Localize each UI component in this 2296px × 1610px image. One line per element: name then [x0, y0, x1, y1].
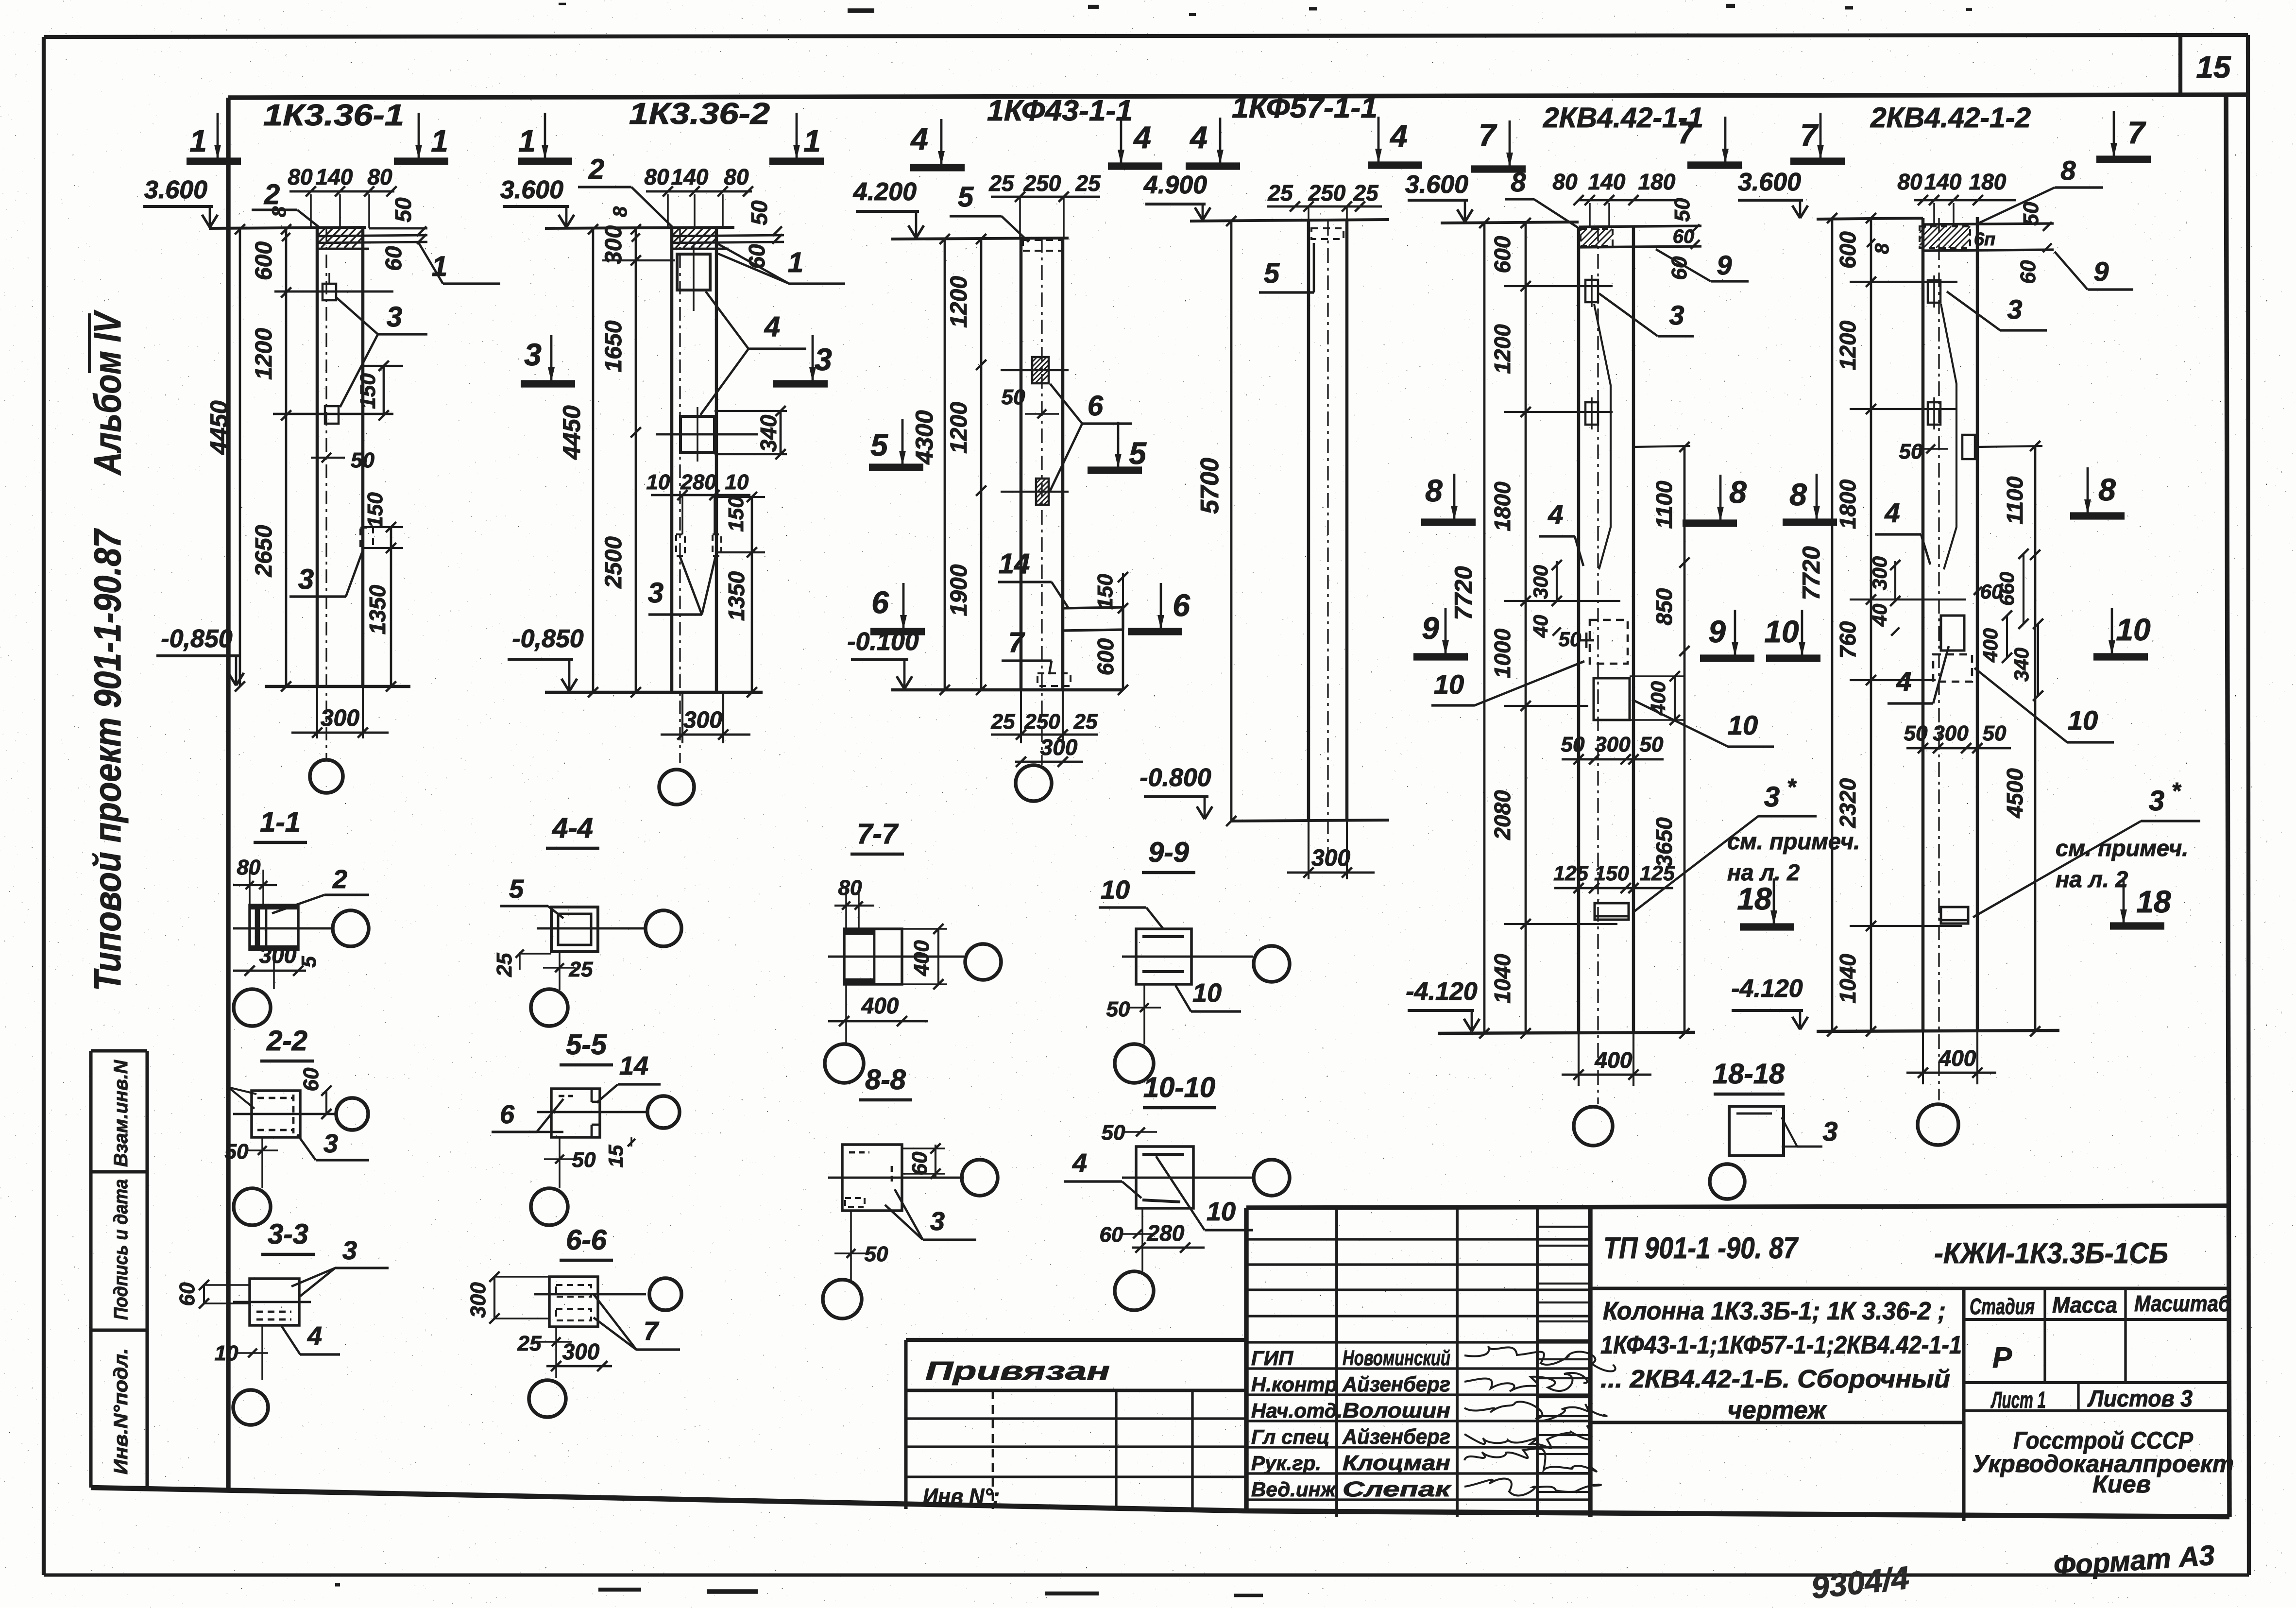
- svg-text:400: 400: [1647, 681, 1669, 716]
- svg-text:400: 400: [1979, 628, 2002, 663]
- svg-text:Колонна 1К3.3Б-1; 1К 3.36-2 ;: Колонна 1К3.3Б-1; 1К 3.36-2 ;: [1603, 1297, 1946, 1325]
- svg-text:14: 14: [619, 1051, 648, 1080]
- svg-text:Масштаб: Масштаб: [2134, 1291, 2231, 1316]
- svg-text:3: 3: [2007, 294, 2022, 325]
- svg-text:Новоминский: Новоминский: [1343, 1346, 1450, 1370]
- svg-text:150: 150: [1093, 574, 1117, 610]
- svg-text:60: 60: [299, 1067, 323, 1091]
- svg-text:1200: 1200: [1835, 320, 1860, 370]
- svg-text:150: 150: [356, 373, 380, 409]
- svg-text:Рук.гр.: Рук.гр.: [1251, 1452, 1321, 1474]
- svg-text:80: 80: [1897, 169, 1922, 194]
- svg-text:10: 10: [646, 470, 670, 494]
- svg-text:50: 50: [1899, 440, 1923, 463]
- svg-text:140: 140: [316, 164, 353, 189]
- svg-text:50: 50: [1670, 198, 1694, 222]
- svg-text:см. примеч.: см. примеч.: [1727, 828, 1860, 854]
- svg-text:3650: 3650: [1651, 817, 1677, 867]
- svg-text:3: 3: [2149, 785, 2164, 817]
- svg-text:10: 10: [1192, 978, 1222, 1008]
- svg-text:2: 2: [588, 154, 604, 185]
- svg-text:250: 250: [1024, 710, 1060, 734]
- svg-text:7-7: 7-7: [857, 818, 899, 850]
- svg-text:50: 50: [351, 448, 374, 472]
- svg-text:850: 850: [1651, 588, 1677, 625]
- svg-text:300: 300: [321, 705, 359, 731]
- svg-text:1040: 1040: [1835, 954, 1860, 1004]
- svg-text:14: 14: [999, 548, 1030, 580]
- svg-text:7: 7: [1008, 627, 1025, 658]
- svg-text:9: 9: [1717, 250, 1732, 280]
- svg-text:*: *: [2172, 778, 2182, 804]
- svg-text:180: 180: [1638, 169, 1676, 194]
- svg-text:3: 3: [1822, 1116, 1837, 1147]
- svg-text:300: 300: [466, 1282, 490, 1318]
- svg-text:2650: 2650: [251, 525, 277, 577]
- svg-text:80: 80: [724, 164, 749, 189]
- svg-text:ГИП: ГИП: [1251, 1347, 1293, 1370]
- svg-text:3: 3: [1669, 300, 1684, 330]
- svg-text:125: 125: [1640, 862, 1675, 885]
- svg-text:8: 8: [1425, 473, 1443, 508]
- svg-text:3.600: 3.600: [1738, 168, 1801, 196]
- svg-text:6: 6: [871, 585, 889, 620]
- svg-text:8: 8: [1511, 167, 1526, 197]
- svg-text:Альбом IV: Альбом IV: [86, 310, 129, 476]
- svg-text:60: 60: [908, 1151, 932, 1175]
- svg-text:4: 4: [1548, 499, 1563, 530]
- svg-text:4500: 4500: [2002, 768, 2027, 819]
- svg-text:1: 1: [431, 123, 448, 158]
- svg-text:25: 25: [493, 953, 516, 977]
- svg-text:2: 2: [264, 179, 280, 210]
- svg-text:2КВ4.42-1-2: 2КВ4.42-1-2: [1870, 102, 2031, 134]
- svg-text:Слепак: Слепак: [1343, 1477, 1452, 1501]
- svg-text:1К3.36-1: 1К3.36-1: [263, 99, 404, 132]
- svg-text:5: 5: [1129, 436, 1147, 471]
- svg-text:50: 50: [1559, 628, 1582, 651]
- svg-text:600: 600: [1835, 231, 1860, 269]
- svg-text:Инв.N°подл.: Инв.N°подл.: [110, 1348, 132, 1474]
- svg-text:7720: 7720: [1450, 566, 1477, 620]
- svg-text:8-8: 8-8: [865, 1064, 906, 1096]
- svg-text:60: 60: [1100, 1223, 1123, 1247]
- svg-text:600: 600: [1093, 638, 1118, 675]
- svg-text:80: 80: [644, 164, 669, 189]
- svg-text:50: 50: [391, 197, 416, 223]
- svg-text:25: 25: [1073, 710, 1098, 734]
- svg-text:-КЖИ-1К3.3Б-1СБ: -КЖИ-1К3.3Б-1СБ: [1934, 1237, 2168, 1269]
- svg-text:5: 5: [870, 428, 888, 462]
- svg-text:Типовой проект 901-1-90.87: Типовой проект 901-1-90.87: [86, 528, 129, 991]
- svg-text:250: 250: [1023, 171, 1061, 196]
- svg-text:ТП 901-1 -90. 87: ТП 901-1 -90. 87: [1603, 1232, 1799, 1265]
- svg-text:3.600: 3.600: [144, 176, 207, 204]
- svg-text:Листов 3: Листов 3: [2087, 1386, 2193, 1412]
- svg-text:18-18: 18-18: [1713, 1058, 1785, 1090]
- svg-text:25: 25: [1267, 180, 1293, 206]
- svg-text:2: 2: [332, 865, 347, 894]
- svg-text:760: 760: [1835, 621, 1860, 658]
- svg-text:3.600: 3.600: [500, 176, 563, 204]
- svg-text:50: 50: [865, 1242, 888, 1266]
- svg-text:3: 3: [342, 1236, 357, 1265]
- svg-text:Р: Р: [1992, 1341, 2012, 1374]
- svg-text:1000: 1000: [1490, 628, 1515, 678]
- svg-text:3: 3: [815, 342, 832, 377]
- svg-text:1900: 1900: [946, 564, 972, 616]
- svg-text:1200: 1200: [1490, 324, 1515, 374]
- svg-text:2500: 2500: [601, 536, 627, 589]
- svg-text:7: 7: [1678, 115, 1697, 150]
- svg-text:3: 3: [323, 1129, 338, 1158]
- svg-text:60: 60: [175, 1282, 199, 1306]
- svg-text:Гл спец: Гл спец: [1251, 1425, 1329, 1448]
- svg-text:660: 660: [1995, 572, 2018, 606]
- svg-text:-4.120: -4.120: [1731, 975, 1803, 1003]
- svg-text:9: 9: [1708, 614, 1726, 649]
- svg-text:1КФ43-1-1;1КФ57-1-1;2КВ4.42-1-: 1КФ43-1-1;1КФ57-1-1;2КВ4.42-1-1: [1600, 1331, 1962, 1359]
- svg-text:-0.800: -0.800: [1139, 764, 1211, 792]
- svg-text:Н.контр: Н.контр: [1251, 1373, 1337, 1396]
- svg-text:300: 300: [1040, 735, 1078, 760]
- svg-text:400: 400: [1595, 1047, 1633, 1073]
- svg-text:на л. 2: на л. 2: [2056, 866, 2128, 892]
- svg-text:7: 7: [644, 1317, 660, 1346]
- svg-text:300: 300: [683, 707, 722, 733]
- svg-text:3: 3: [298, 564, 314, 595]
- svg-text:2080: 2080: [1490, 790, 1515, 840]
- svg-text:1350: 1350: [724, 571, 749, 621]
- svg-text:Айзенберг: Айзенберг: [1342, 1372, 1450, 1396]
- svg-text:3: 3: [648, 577, 663, 609]
- svg-text:4: 4: [910, 121, 928, 156]
- svg-text:3.600: 3.600: [1405, 171, 1468, 199]
- svg-text:5: 5: [509, 874, 524, 904]
- svg-text:Взам.инв.N: Взам.инв.N: [110, 1060, 132, 1167]
- svg-text:8: 8: [1789, 477, 1807, 512]
- svg-text:Клоцман: Клоцман: [1343, 1451, 1450, 1475]
- svg-text:5: 5: [958, 181, 974, 213]
- svg-text:400: 400: [1939, 1045, 1976, 1071]
- svg-text:7: 7: [2127, 115, 2146, 150]
- svg-text:... 2КВ4.42-1-Б. Сборочный: ... 2КВ4.42-1-Б. Сборочный: [1600, 1365, 1950, 1393]
- svg-text:50: 50: [2019, 202, 2043, 225]
- svg-text:340: 340: [2010, 648, 2033, 682]
- svg-text:*: *: [1787, 774, 1797, 800]
- svg-text:1: 1: [189, 123, 207, 158]
- svg-text:1: 1: [803, 123, 821, 158]
- svg-text:8: 8: [610, 206, 631, 217]
- svg-text:2-2: 2-2: [266, 1025, 307, 1057]
- svg-text:10: 10: [1434, 669, 1464, 700]
- svg-text:18: 18: [2136, 884, 2171, 919]
- svg-text:80: 80: [1552, 169, 1578, 194]
- svg-text:Масса: Масса: [2052, 1292, 2117, 1318]
- svg-text:9: 9: [1422, 611, 1439, 646]
- svg-text:25: 25: [991, 710, 1015, 734]
- svg-text:Нач.отд.: Нач.отд.: [1251, 1399, 1343, 1422]
- svg-text:280: 280: [1147, 1220, 1185, 1246]
- svg-text:50: 50: [1640, 733, 1664, 756]
- svg-text:-0.100: -0.100: [847, 628, 919, 656]
- svg-text:3: 3: [1764, 781, 1780, 813]
- svg-text:300: 300: [562, 1339, 600, 1364]
- svg-text:280: 280: [680, 470, 716, 494]
- svg-text:10-10: 10-10: [1143, 1072, 1215, 1103]
- svg-text:1КФ57-1-1: 1КФ57-1-1: [1232, 91, 1378, 124]
- svg-text:10: 10: [1764, 614, 1799, 649]
- svg-text:1-1: 1-1: [260, 806, 301, 838]
- svg-text:3-3: 3-3: [268, 1218, 308, 1250]
- svg-text:-0,850: -0,850: [161, 625, 233, 653]
- svg-text:7: 7: [1479, 118, 1497, 153]
- svg-text:340: 340: [756, 414, 781, 452]
- svg-text:1040: 1040: [1490, 954, 1515, 1004]
- svg-text:10: 10: [2068, 705, 2098, 736]
- svg-text:4: 4: [1896, 666, 1911, 697]
- svg-text:5-5: 5-5: [566, 1029, 607, 1061]
- svg-text:50: 50: [1106, 997, 1130, 1021]
- svg-text:4300: 4300: [911, 410, 938, 464]
- svg-text:1: 1: [518, 123, 536, 158]
- svg-text:50: 50: [225, 1140, 249, 1164]
- svg-text:140: 140: [671, 164, 709, 189]
- svg-text:1К3.36-2: 1К3.36-2: [629, 97, 770, 131]
- svg-text:400: 400: [910, 940, 934, 976]
- svg-text:150: 150: [1594, 862, 1629, 885]
- svg-text:Вед.инж: Вед.инж: [1251, 1478, 1337, 1501]
- svg-text:Подпись и дата: Подпись и дата: [110, 1179, 132, 1320]
- svg-text:9: 9: [2093, 256, 2109, 287]
- svg-text:250: 250: [1308, 180, 1346, 206]
- svg-text:1200: 1200: [251, 328, 277, 380]
- svg-text:15: 15: [2196, 50, 2231, 85]
- svg-text:8: 8: [1729, 475, 1747, 510]
- svg-text:60: 60: [2016, 260, 2040, 284]
- svg-text:25: 25: [1353, 180, 1379, 206]
- svg-text:5: 5: [1264, 257, 1280, 289]
- svg-text:1800: 1800: [1835, 479, 1860, 529]
- svg-text:50: 50: [1983, 721, 2007, 745]
- svg-text:9-9: 9-9: [1148, 837, 1189, 868]
- svg-text:Инв N°:: Инв N°:: [923, 1484, 1000, 1509]
- svg-text:4450: 4450: [205, 400, 233, 455]
- svg-text:60: 60: [1673, 226, 1695, 247]
- svg-text:1100: 1100: [1651, 480, 1677, 529]
- svg-text:1350: 1350: [365, 584, 390, 634]
- svg-text:5700: 5700: [1196, 458, 1224, 514]
- svg-text:6: 6: [1173, 588, 1190, 623]
- svg-text:150: 150: [363, 492, 387, 528]
- svg-text:140: 140: [1588, 169, 1626, 194]
- svg-text:4450: 4450: [558, 405, 585, 460]
- svg-text:8: 8: [2060, 155, 2076, 186]
- svg-text:300: 300: [1529, 565, 1552, 599]
- svg-text:25: 25: [569, 958, 593, 981]
- svg-text:Айзенберг: Айзенберг: [1342, 1425, 1450, 1449]
- svg-text:80: 80: [288, 164, 313, 189]
- svg-text:50: 50: [1102, 1121, 1125, 1145]
- svg-text:300: 300: [1933, 721, 1969, 745]
- svg-text:6-6: 6-6: [566, 1224, 607, 1256]
- svg-text:1650: 1650: [601, 320, 627, 372]
- svg-text:40: 40: [1868, 604, 1891, 627]
- svg-text:80: 80: [367, 164, 392, 189]
- svg-text:40: 40: [1529, 615, 1552, 638]
- svg-text:15: 15: [604, 1145, 627, 1167]
- svg-text:1100: 1100: [2002, 476, 2027, 524]
- svg-text:3: 3: [524, 337, 542, 372]
- svg-text:8: 8: [269, 206, 290, 217]
- svg-text:300: 300: [259, 942, 297, 968]
- svg-text:4.200: 4.200: [853, 178, 917, 206]
- svg-text:-0,850: -0,850: [512, 625, 584, 653]
- svg-text:1: 1: [788, 247, 803, 278]
- svg-text:25: 25: [517, 1332, 542, 1355]
- svg-text:50: 50: [1002, 385, 1025, 409]
- svg-text:4: 4: [307, 1321, 322, 1351]
- svg-text:1КФ43-1-1: 1КФ43-1-1: [987, 94, 1133, 127]
- svg-text:50: 50: [1561, 733, 1585, 756]
- svg-text:10: 10: [1728, 710, 1758, 740]
- svg-text:Киев: Киев: [2092, 1471, 2151, 1498]
- svg-text:Стадия: Стадия: [1970, 1294, 2035, 1319]
- svg-text:1800: 1800: [1490, 481, 1515, 531]
- svg-text:600: 600: [1490, 236, 1515, 273]
- svg-text:см. примеч.: см. примеч.: [2056, 835, 2188, 861]
- svg-text:Волошин: Волошин: [1343, 1399, 1450, 1422]
- svg-text:50: 50: [1904, 721, 1928, 745]
- svg-text:400: 400: [861, 993, 899, 1018]
- svg-text:300: 300: [1595, 733, 1631, 756]
- svg-text:Привязан: Привязан: [925, 1356, 1110, 1386]
- svg-text:18: 18: [1737, 881, 1772, 916]
- svg-text:600: 600: [251, 241, 277, 280]
- svg-text:1200: 1200: [946, 402, 972, 454]
- svg-text:140: 140: [1924, 169, 1962, 194]
- svg-text:-4.120: -4.120: [1406, 977, 1478, 1006]
- svg-text:5: 5: [297, 956, 320, 968]
- svg-text:60: 60: [381, 246, 406, 271]
- svg-text:8: 8: [2098, 472, 2116, 507]
- svg-text:2320: 2320: [1835, 778, 1860, 828]
- svg-text:180: 180: [1969, 169, 2007, 194]
- svg-text:150: 150: [724, 496, 748, 532]
- svg-text:4.900: 4.900: [1143, 171, 1207, 199]
- svg-text:4-4: 4-4: [552, 812, 593, 844]
- svg-text:3: 3: [387, 301, 402, 333]
- svg-text:10: 10: [725, 470, 749, 494]
- svg-text:4: 4: [1133, 120, 1151, 155]
- svg-text:25: 25: [988, 171, 1015, 196]
- svg-text:10: 10: [1207, 1197, 1236, 1226]
- svg-text:300: 300: [1311, 845, 1350, 871]
- svg-text:25: 25: [1075, 171, 1101, 196]
- svg-text:50: 50: [747, 200, 772, 225]
- svg-text:чертеж: чертеж: [1727, 1396, 1827, 1424]
- svg-text:300: 300: [1868, 556, 1891, 590]
- svg-text:4: 4: [1884, 497, 1900, 528]
- svg-text:4: 4: [1389, 119, 1408, 154]
- svg-text:1200: 1200: [946, 276, 972, 328]
- svg-text:125: 125: [1553, 862, 1589, 885]
- svg-text:3: 3: [930, 1207, 945, 1236]
- svg-text:10: 10: [1101, 875, 1130, 905]
- svg-text:4: 4: [764, 311, 780, 343]
- svg-text:4: 4: [1072, 1148, 1087, 1178]
- svg-text:4: 4: [1189, 120, 1208, 155]
- svg-text:300: 300: [601, 225, 627, 264]
- svg-text:7720: 7720: [1798, 546, 1825, 600]
- svg-text:6: 6: [500, 1100, 515, 1129]
- svg-text:10: 10: [2116, 612, 2150, 647]
- svg-text:7: 7: [1800, 118, 1819, 153]
- svg-text:10: 10: [215, 1341, 238, 1365]
- svg-text:8: 8: [1871, 243, 1893, 254]
- svg-text:6: 6: [1088, 390, 1104, 422]
